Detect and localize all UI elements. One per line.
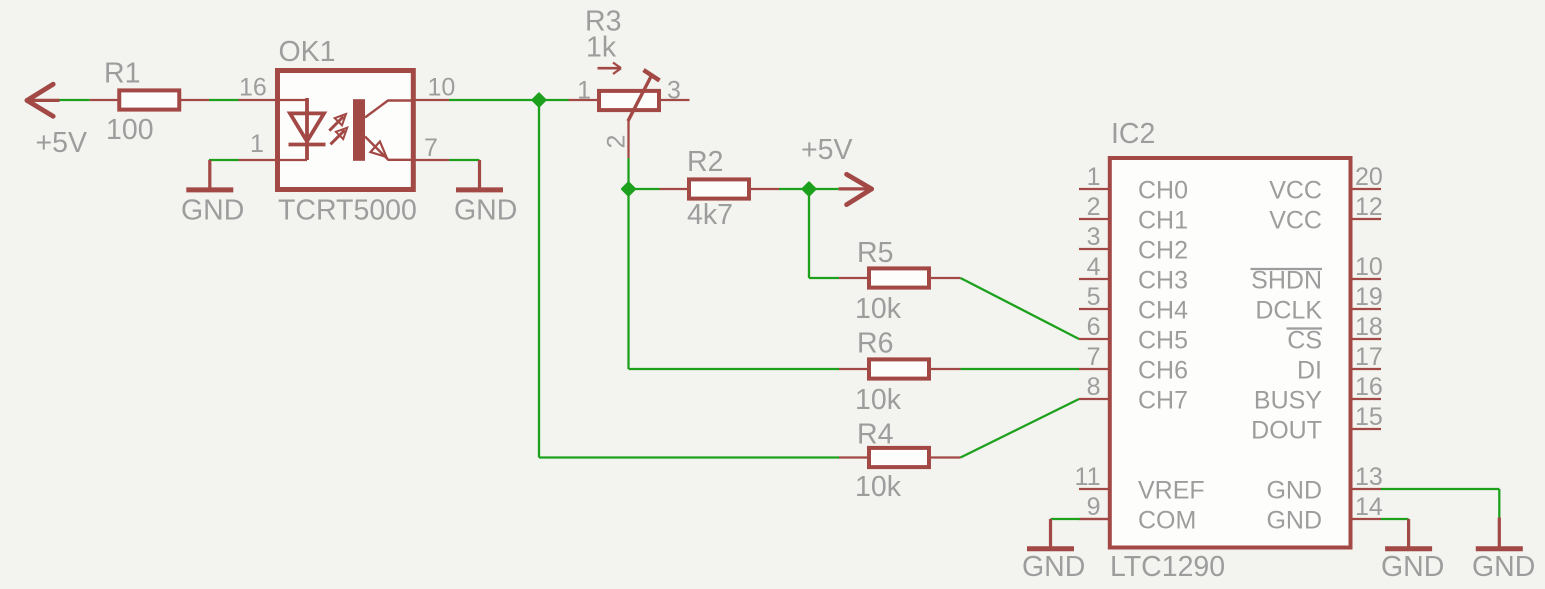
svg-text:15: 15 bbox=[1355, 403, 1383, 431]
svg-text:+5V: +5V bbox=[36, 127, 88, 159]
svg-text:3: 3 bbox=[667, 77, 681, 105]
svg-text:4k7: 4k7 bbox=[687, 199, 733, 231]
svg-text:R4: R4 bbox=[857, 419, 894, 451]
svg-text:VCC: VCC bbox=[1269, 207, 1322, 235]
svg-text:CH6: CH6 bbox=[1138, 357, 1188, 385]
svg-text:10k: 10k bbox=[855, 293, 902, 325]
svg-text:11: 11 bbox=[1075, 463, 1101, 491]
svg-text:2: 2 bbox=[603, 135, 631, 149]
svg-text:12: 12 bbox=[1355, 193, 1383, 221]
svg-text:9: 9 bbox=[1087, 493, 1101, 521]
svg-text:10: 10 bbox=[428, 74, 456, 102]
svg-text:1: 1 bbox=[577, 77, 591, 105]
svg-text:8: 8 bbox=[1087, 373, 1101, 401]
svg-text:+5V: +5V bbox=[801, 134, 853, 166]
svg-text:16: 16 bbox=[1355, 373, 1383, 401]
svg-text:10: 10 bbox=[1355, 253, 1383, 281]
svg-text:IC2: IC2 bbox=[1111, 118, 1155, 150]
svg-text:GND: GND bbox=[1022, 551, 1085, 583]
svg-text:R6: R6 bbox=[857, 328, 893, 360]
svg-text:4: 4 bbox=[1087, 253, 1101, 281]
svg-text:7: 7 bbox=[1087, 343, 1101, 371]
svg-text:CH7: CH7 bbox=[1138, 387, 1188, 415]
svg-text:CH3: CH3 bbox=[1138, 267, 1188, 295]
svg-text:CH5: CH5 bbox=[1138, 327, 1188, 355]
svg-text:GND: GND bbox=[1266, 507, 1322, 535]
svg-text:14: 14 bbox=[1355, 493, 1383, 521]
svg-text:R5: R5 bbox=[857, 237, 893, 269]
svg-text:1: 1 bbox=[250, 130, 264, 158]
svg-text:GND: GND bbox=[454, 195, 517, 227]
svg-text:DI: DI bbox=[1297, 357, 1322, 385]
svg-text:1: 1 bbox=[1087, 163, 1101, 191]
svg-text:TCRT5000: TCRT5000 bbox=[278, 195, 417, 227]
svg-text:10k: 10k bbox=[855, 384, 902, 416]
svg-text:17: 17 bbox=[1355, 343, 1383, 371]
svg-text:7: 7 bbox=[424, 134, 438, 162]
svg-text:COM: COM bbox=[1138, 507, 1196, 535]
svg-text:GND: GND bbox=[1381, 551, 1444, 583]
svg-text:GND: GND bbox=[1472, 551, 1535, 583]
svg-text:BUSY: BUSY bbox=[1254, 387, 1322, 415]
svg-text:13: 13 bbox=[1355, 463, 1383, 491]
svg-text:OK1: OK1 bbox=[279, 36, 336, 68]
svg-text:LTC1290: LTC1290 bbox=[1110, 551, 1225, 583]
svg-text:R1: R1 bbox=[104, 58, 140, 90]
svg-text:GND: GND bbox=[181, 195, 244, 227]
svg-text:3: 3 bbox=[1087, 223, 1101, 251]
svg-text:1k: 1k bbox=[586, 32, 617, 64]
svg-text:DCLK: DCLK bbox=[1255, 297, 1322, 325]
svg-text:VREF: VREF bbox=[1138, 477, 1205, 505]
svg-text:5: 5 bbox=[1087, 283, 1101, 311]
svg-text:6: 6 bbox=[1087, 313, 1101, 341]
svg-text:16: 16 bbox=[239, 74, 267, 102]
svg-text:CH1: CH1 bbox=[1138, 207, 1188, 235]
svg-text:2: 2 bbox=[1087, 193, 1101, 221]
svg-text:CH4: CH4 bbox=[1138, 297, 1188, 325]
svg-text:CH2: CH2 bbox=[1138, 237, 1188, 265]
svg-text:100: 100 bbox=[106, 114, 154, 146]
svg-text:20: 20 bbox=[1355, 163, 1383, 191]
svg-text:CS: CS bbox=[1287, 327, 1322, 355]
svg-text:VCC: VCC bbox=[1269, 177, 1322, 205]
svg-text:R2: R2 bbox=[687, 146, 723, 178]
svg-text:19: 19 bbox=[1355, 283, 1383, 311]
svg-text:CH0: CH0 bbox=[1138, 177, 1188, 205]
svg-text:18: 18 bbox=[1355, 313, 1383, 341]
svg-text:DOUT: DOUT bbox=[1251, 417, 1322, 445]
svg-text:10k: 10k bbox=[855, 471, 902, 503]
svg-text:SHDN: SHDN bbox=[1251, 267, 1322, 295]
svg-text:GND: GND bbox=[1266, 477, 1322, 505]
